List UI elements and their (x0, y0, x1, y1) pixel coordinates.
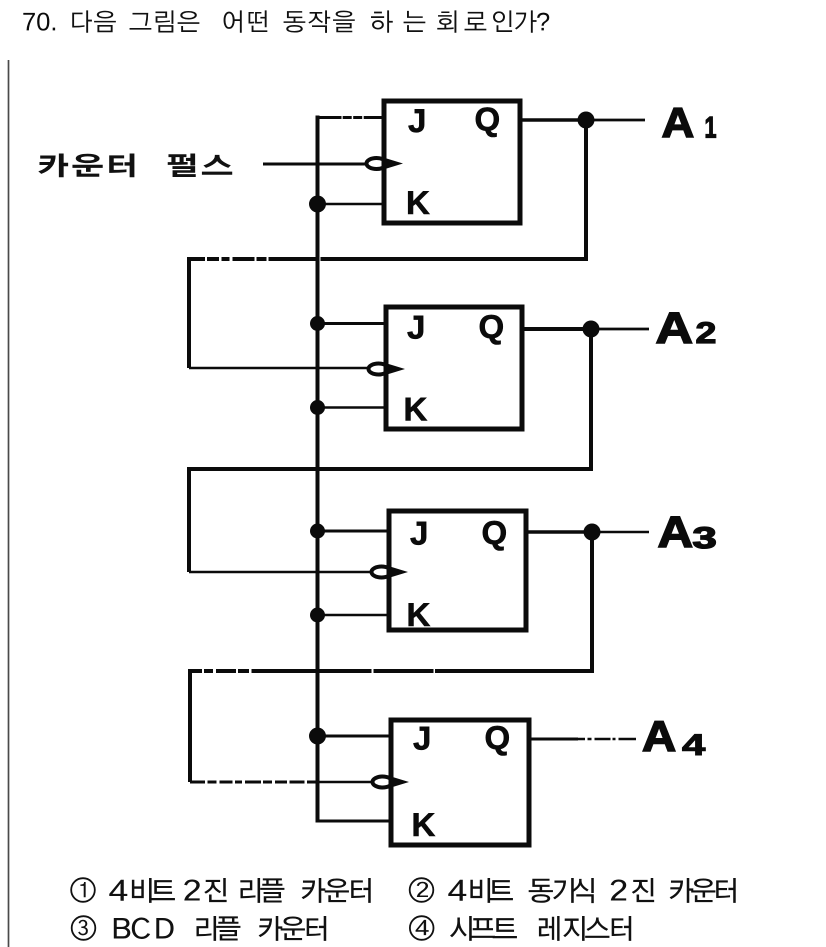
U4 pin label Q (486, 726, 509, 756)
question number 70. (23, 13, 55, 31)
J4 input wire (316, 735, 392, 738)
JK flip-flop U4 box (391, 720, 529, 845)
junction dot Q3 (584, 524, 601, 541)
title korean text (72, 10, 536, 32)
U1 pin label Q (476, 107, 499, 137)
circled answer number 2 (410, 878, 434, 902)
U3 pin label Q (483, 521, 506, 551)
K4 input wire (316, 820, 392, 823)
J1 input wire (316, 116, 385, 119)
circled digit 1 (80, 882, 85, 897)
clock symbol U4 (373, 777, 410, 788)
clock symbol U2 (369, 364, 406, 375)
U3 pin label J (410, 522, 426, 545)
output label A3 (659, 517, 715, 549)
clock symbol U3 (372, 567, 409, 578)
junction dot Q2 (583, 321, 600, 338)
Q1 output wire (520, 118, 586, 122)
answer option 3 text (114, 916, 326, 941)
U3 pin label K (409, 603, 430, 626)
U4 pin label K (414, 813, 435, 836)
clock 4 feed wire (190, 780, 318, 783)
Q3 feedback left drop wire (188, 671, 192, 782)
circled answer number 4 (410, 916, 434, 940)
Q2 output wire (522, 327, 591, 331)
circled digit 4 (416, 920, 429, 935)
J3 input wire (316, 530, 390, 533)
JK flip-flop U3 box (389, 511, 526, 630)
Q1 feedback horizontal wire (187, 257, 588, 261)
junction dot K2 (310, 400, 325, 415)
U2 pin label J (407, 316, 423, 339)
junction dot Q1 (578, 112, 595, 129)
junction dot J3 (310, 524, 325, 539)
junction dot J4 (309, 728, 326, 745)
Q2 feedback drop wire (589, 329, 593, 471)
answer option 2 text (448, 878, 735, 903)
answer option 1 text (109, 878, 370, 903)
circled digit 3 (78, 920, 88, 936)
Q2 feedback horizontal wire (187, 467, 593, 471)
clock 2 feed wire (189, 367, 367, 370)
circled digit 2 (417, 882, 428, 897)
J2 input wire (316, 322, 387, 325)
JK flip-flop U2 box (386, 307, 522, 429)
clock 3 feed wire (189, 571, 370, 574)
U2 pin label K (406, 398, 427, 421)
circled answer number 3 (72, 916, 96, 940)
junction dot J2 (310, 316, 325, 331)
junction dot K3 (310, 608, 325, 623)
U1 pin label K (408, 191, 429, 214)
U2 pin label Q (480, 315, 503, 345)
Q2 feedback left drop wire (187, 469, 191, 572)
Q1 feedback drop wire (584, 120, 588, 261)
circled answer number 1 (71, 878, 95, 902)
Q3 feedback horizontal wire (188, 669, 594, 673)
U1 pin label J (408, 109, 424, 132)
title question mark (537, 13, 549, 31)
answer option 4 text (450, 916, 631, 941)
clock pulse input wire (263, 163, 367, 166)
input label: 카운터 펄스 (counter pulse) (38, 153, 232, 177)
junction dot K1 (309, 196, 326, 213)
clock symbol U1 (367, 158, 404, 169)
Q1 feedback left drop wire (187, 259, 191, 368)
output label A1 (663, 108, 716, 137)
Q3 output wire (526, 530, 592, 534)
output label A4 (643, 721, 705, 755)
page left margin rule (8, 60, 10, 947)
Q4 output wire (529, 738, 578, 741)
output label A2 (657, 313, 715, 343)
Q3 feedback drop wire (590, 532, 594, 673)
U4 pin label J (413, 727, 429, 750)
K1 input wire (316, 203, 385, 206)
K3 input wire (316, 614, 390, 617)
JK bus vertical wire (316, 116, 320, 822)
JK flip-flop U1 box (384, 101, 520, 223)
K2 input wire (316, 406, 387, 409)
